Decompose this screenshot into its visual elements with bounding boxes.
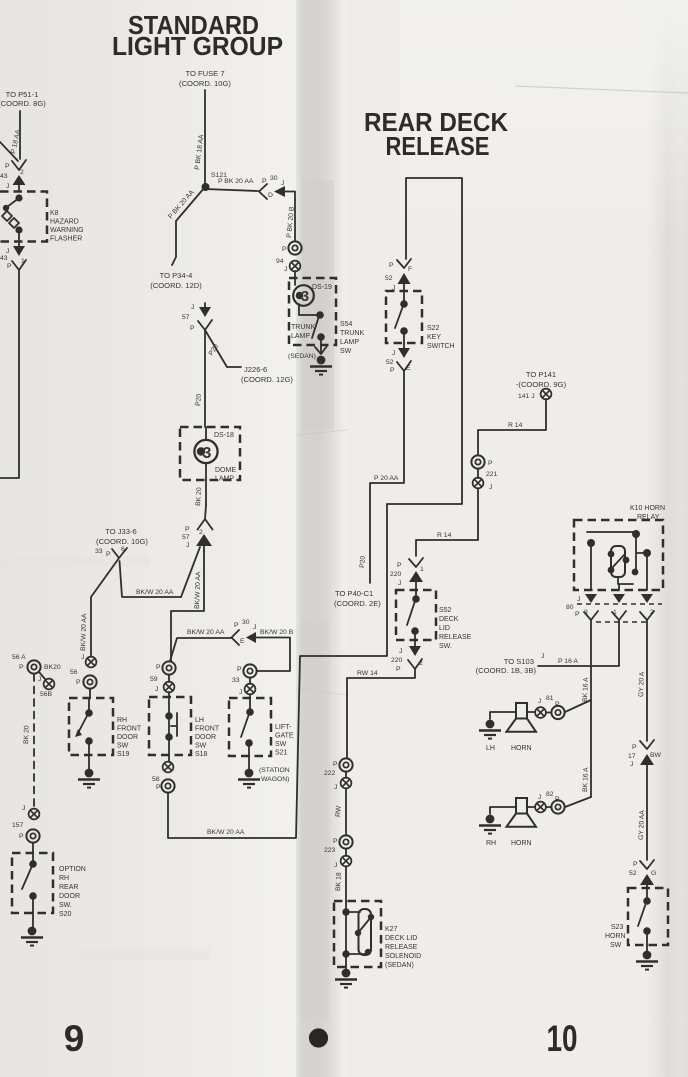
RH horn [490,798,536,827]
wire RW 14 to P222 [347,669,415,758]
label S54 TRUNK LAMP SW [340,321,364,355]
wire pin 3 to horns [590,620,592,797]
svg-text:J: J [186,542,189,549]
svg-text:RELEASE: RELEASE [385,944,418,951]
svg-text:81: 81 [546,695,554,702]
connector P 33 ring [237,664,257,677]
svg-text:P BK 20 AA: P BK 20 AA [218,178,254,185]
svg-text:BK/W 20 AA: BK/W 20 AA [207,829,245,836]
node TO P141 label [516,370,567,400]
svg-text:RW: RW [335,805,343,817]
svg-text:RELEASE: RELEASE [386,131,490,161]
wire pin 2 down [646,620,648,741]
connector 57/2 pair [182,505,213,552]
svg-text:56B: 56B [40,691,53,698]
svg-text:222: 222 [324,770,336,777]
svg-text:WARNING: WARNING [50,227,84,234]
label K10 HORN RELAY [630,505,665,521]
svg-text:LAMP: LAMP [215,476,234,483]
svg-text:OPTION: OPTION [59,866,86,873]
svg-text:TO P51-1: TO P51-1 [6,90,39,99]
label TRUNK LAMP [291,324,315,340]
wire 57/2 down to LH door branch [171,550,204,661]
svg-text:J: J [38,676,41,683]
svg-text:REAR: REAR [59,884,78,891]
svg-text:K10 HORN: K10 HORN [630,505,665,512]
label S52 DECK LID RELEASE SW. [439,607,472,650]
svg-text:P: P [632,744,637,751]
wire key switch to P40-C1 [370,371,404,583]
svg-text:9: 9 [64,1018,85,1059]
switch S18 internals [165,697,177,755]
svg-text:R 14: R 14 [508,422,523,429]
svg-text:J226-6: J226-6 [244,365,267,374]
flasher K8 internals [2,194,23,241]
svg-text:(COORD. 2E): (COORD. 2E) [334,599,381,608]
svg-text:TO FUSE 7: TO FUSE 7 [185,69,224,78]
center binder dot [309,1028,328,1047]
splice 157 J [12,805,39,829]
svg-text:LAMP: LAMP [340,339,359,346]
svg-text:TO J33-6: TO J33-6 [105,527,137,536]
lamp DS-18 bulb [194,427,217,480]
connector P 17 BW J [628,740,662,860]
svg-text:SWITCH: SWITCH [427,343,455,350]
svg-text:LAMP: LAMP [291,333,310,340]
svg-text:HORN: HORN [605,933,626,940]
connector 56 P ring [76,675,97,698]
node TO P51-1 label [0,90,46,108]
wire dashed BK 20 option feed [33,674,35,808]
svg-text:RW 14: RW 14 [357,670,378,677]
svg-text:(COORD. 10G): (COORD. 10G) [179,79,231,88]
svg-text:BK/W 20 AA: BK/W 20 AA [80,613,88,651]
svg-text:D: D [268,192,273,199]
svg-text:P: P [282,246,287,253]
wire branch to LH horn [565,700,591,712]
splice S121 [202,172,228,191]
svg-text:J: J [239,689,242,696]
svg-text:GATE: GATE [275,733,294,740]
svg-text:J: J [155,686,158,693]
svg-text:SW.: SW. [439,643,452,650]
svg-text:J: J [253,624,256,631]
svg-text:BK/W 20 AA: BK/W 20 AA [136,589,174,596]
svg-text:RELEASE: RELEASE [439,634,472,641]
splice 81 J [535,695,554,718]
svg-text:(COORD. 10G): (COORD. 10G) [96,537,148,546]
svg-text:P: P [106,551,111,558]
svg-text:HAZARD: HAZARD [50,219,79,226]
svg-text:2: 2 [199,529,203,536]
label OPTION RH REAR DOOR SW. S20 [59,866,86,918]
wire BK/W 20 AA to connector E [170,638,231,661]
title: STANDARD LIGHT GROUP [112,10,283,61]
svg-text:P: P [633,861,638,868]
svg-text:P: P [185,526,190,533]
switch S52 deck lid release dashed box [396,590,436,640]
svg-text:SW: SW [275,741,287,748]
svg-text:DOME: DOME [215,467,236,474]
svg-text:P: P [397,562,402,569]
solenoid K27 internals [342,901,374,965]
svg-text:S52: S52 [439,607,452,614]
connector 81 P ring [546,701,565,719]
connector D / P 30 J [259,175,295,241]
svg-text:R 14: R 14 [437,532,452,539]
switch S18 LH front door dashed box [149,697,191,755]
splice 141 J [541,389,552,400]
label RH FRONT DOOR SW S19 [117,717,142,758]
svg-text:S23: S23 [611,924,624,931]
svg-text:GY 20 AA: GY 20 AA [638,810,646,840]
svg-text:TO P40-C1: TO P40-C1 [335,589,373,598]
connector F / P 52 J above key switch [385,259,412,292]
svg-text:P: P [390,367,395,374]
wire BK/W 20 AA long feed to right page [168,178,462,838]
svg-text:KEY: KEY [427,334,441,341]
connector 220/1 above S52 [390,558,424,590]
svg-text:J: J [392,350,395,357]
svg-text:(COORD. 1B, 3B): (COORD. 1B, 3B) [476,666,537,675]
lamp DS-19 dashed box [289,278,336,345]
svg-text:LIFT-: LIFT- [275,724,292,731]
svg-text:BK 16 A: BK 16 A [582,677,590,702]
svg-text:P: P [389,262,394,269]
svg-text:J: J [538,698,541,705]
svg-text:P: P [7,263,12,270]
connector 57 upper [182,303,212,332]
svg-text:3: 3 [203,445,212,462]
lamp DS-19 bulb [293,278,317,315]
wire R 14 from P141 [478,399,546,455]
svg-text:P: P [156,784,161,791]
connector J33 pin 6 [95,546,127,558]
svg-text:59: 59 [150,676,158,683]
svg-text:BK 20: BK 20 [23,725,31,744]
svg-text:G: G [651,870,656,877]
svg-text:(SEDAN): (SEDAN) [288,353,316,360]
svg-text:P: P [396,666,401,673]
switch S21 internals [241,698,254,756]
svg-text:K27: K27 [385,926,398,933]
svg-text:82: 82 [546,791,554,798]
svg-text:P: P [333,761,338,768]
svg-text:LID: LID [439,625,450,632]
ground below S21 [238,756,260,788]
svg-text:BK20: BK20 [44,664,61,671]
wire dome lamp down [205,480,207,505]
wire pin 1 to S103 [538,620,619,666]
ground below K27 [335,965,357,988]
svg-text:WAGON): WAGON) [261,776,289,783]
wire diagonal joining connector 43 [0,142,18,161]
splice 223 J [324,847,351,901]
connector 157 P ring [19,829,40,853]
svg-text:RH: RH [486,840,496,847]
svg-text:56: 56 [70,669,78,676]
svg-text:E: E [240,638,245,645]
svg-text:J: J [191,304,194,311]
svg-text:P 16 A: P 16 A [558,658,578,665]
svg-text:(STATION: (STATION [259,767,290,774]
svg-text:94: 94 [276,258,284,265]
LH horn [490,703,536,732]
svg-text:2: 2 [20,169,24,176]
svg-text:52: 52 [385,275,393,282]
switch S52 internals [407,590,420,640]
svg-text:SOLENOID: SOLENOID [385,953,421,960]
svg-text:BK/W 20 AA: BK/W 20 AA [187,629,225,636]
connector 43 pin 1 [0,241,26,270]
connector P 223 ring [333,835,353,848]
svg-text:P: P [190,325,195,332]
connector P 222 ring [333,758,353,771]
svg-text:P20: P20 [359,555,367,568]
switch S21 liftgate dashed box [229,698,271,756]
wire branch to J226-6 [205,330,241,367]
svg-text:220: 220 [390,571,402,578]
splice 59 J [150,675,174,697]
splice 56 J [70,654,96,676]
ground below S19 [78,755,100,788]
svg-text:P: P [333,838,338,845]
switch S54 trunk lamp sw [312,311,325,352]
svg-text:S19: S19 [117,751,130,758]
relay K10 dashed box [574,520,663,590]
svg-text:P: P [156,664,161,671]
label K27 DECK LID RELEASE SOLENOID (SEDAN) [385,926,421,969]
svg-text:LH: LH [195,717,204,724]
svg-text:57: 57 [182,534,190,541]
svg-text:30: 30 [242,619,250,626]
svg-text:(SEDAN): (SEDAN) [385,962,414,969]
svg-text:S20: S20 [59,911,72,918]
svg-text:P 20 AA: P 20 AA [374,475,399,482]
wire 57 to dome lamp [204,330,206,427]
svg-text:SW.: SW. [59,902,72,909]
wire R 14 to S52 [416,540,478,556]
svg-text:52: 52 [386,359,394,366]
node TO P40-C1 label [334,589,381,608]
svg-text:J: J [541,653,544,660]
svg-text:J: J [398,580,401,587]
svg-text:3: 3 [301,289,309,305]
svg-text:(COORD. 8G): (COORD. 8G) [0,99,46,108]
switch S19 internals [75,698,93,755]
splice 94 J [276,258,300,278]
svg-text:52: 52 [629,870,637,877]
svg-text:223: 223 [324,847,336,854]
faint crease top right [515,86,688,93]
splice 221 J [473,469,498,540]
wire P 18 AA from P51-1 [19,111,21,159]
connector P 52 G [629,860,656,888]
svg-text:J: J [399,648,402,655]
svg-text:P20: P20 [195,393,203,406]
svg-text:J: J [489,484,492,491]
connector 43 pin 2 [0,160,26,191]
lamp DS-18 dashed box [180,427,240,480]
svg-text:S22: S22 [427,325,440,332]
connector 58 P ring [156,779,175,792]
node TO J33-6 label [96,527,148,546]
right page edge shadow [648,0,688,1077]
wire branch to RH horn [565,797,591,807]
svg-text:FRONT: FRONT [117,726,142,733]
svg-text:J: J [538,794,541,801]
svg-text:DECK LID: DECK LID [385,935,417,942]
svg-text:J: J [334,784,337,791]
svg-text:J: J [577,596,580,603]
node J226-6 label [241,365,293,384]
svg-text:J: J [284,266,287,273]
svg-text:P: P [19,664,24,671]
svg-text:DOOR: DOOR [195,734,216,741]
svg-text:LIGHT GROUP: LIGHT GROUP [112,31,283,61]
svg-text:J: J [22,805,25,812]
relay K10 pin arrows 3 1 2 [566,594,662,622]
svg-text:-(COORD. 9G): -(COORD. 9G) [516,380,567,389]
svg-text:P: P [575,611,580,618]
svg-text:RH: RH [117,717,127,724]
svg-text:BW: BW [650,752,662,759]
splice 33 J [232,677,255,698]
connector 56A P ring [12,654,61,674]
connector E / P 30 J [232,619,291,671]
svg-text:P: P [237,666,242,673]
faint fold creases [296,430,347,435]
svg-text:SW: SW [117,743,129,750]
svg-text:DECK: DECK [439,616,459,623]
ground RH horn [479,815,501,834]
label DOME LAMP [215,467,236,483]
svg-text:P: P [19,833,24,840]
svg-text:J: J [630,761,633,768]
svg-text:TO P34-4: TO P34-4 [160,271,193,280]
svg-text:10: 10 [547,1018,578,1059]
svg-text:221: 221 [486,471,498,478]
wire from connector 43 to page edge [0,270,19,478]
switch S22 key switch dashed box [386,291,422,343]
svg-text:K8: K8 [50,210,59,217]
svg-text:33: 33 [232,677,240,684]
svg-text:P: P [76,679,81,686]
svg-text:DOOR: DOOR [117,734,138,741]
label LH FRONT DOOR SW S18 [195,717,220,758]
ground below S54 [310,346,332,375]
svg-text:J: J [81,654,84,661]
svg-text:141 J: 141 J [518,393,535,400]
node TO FUSE 7 label [179,69,231,88]
label LH HORN [486,745,532,752]
wire J33 to RH front door [91,558,119,656]
svg-text:P: P [488,460,493,467]
svg-text:BK 20: BK 20 [195,487,203,506]
svg-text:80: 80 [566,604,574,611]
svg-text:J: J [6,183,9,190]
label (STATION WAGON) [259,767,290,783]
ground below S23 [636,945,658,970]
svg-text:BK/W 20 B: BK/W 20 B [260,629,294,636]
relay K10 internals [587,530,651,590]
label S22 KEY SWITCH [427,325,455,350]
svg-text:BK 18: BK 18 [335,872,343,891]
solenoid K27 deck lid release dashed box [334,901,381,967]
svg-text:BK/W 20 AA: BK/W 20 AA [194,571,202,609]
svg-text:58: 58 [152,776,160,783]
switch S23 internals [638,888,651,945]
svg-text:TRUNK: TRUNK [340,330,364,337]
splice 56B J [38,672,54,698]
label LIFT-GATE SW S21 [275,724,294,757]
svg-text:17: 17 [628,753,636,760]
svg-text:43: 43 [0,173,8,180]
right page paper [347,0,688,1077]
title: REAR DECK RELEASE [364,107,508,161]
svg-text:DOOR: DOOR [59,893,80,900]
svg-text:SW: SW [610,942,622,949]
svg-text:LH: LH [486,745,495,752]
svg-text:TO P141: TO P141 [526,370,556,379]
svg-text:S18: S18 [195,751,208,758]
svg-text:30: 30 [270,175,278,182]
svg-text:SW: SW [195,743,207,750]
svg-text:RH: RH [59,875,69,882]
svg-text:BK 16 A: BK 16 A [582,767,590,792]
node TO P34-4 label [150,271,202,290]
flasher K8 dashed box [0,192,47,242]
svg-text:P: P [234,622,239,629]
svg-text:TO S103: TO S103 [504,657,534,666]
svg-text:57: 57 [182,314,190,321]
label S23 HORN SW [605,924,626,949]
svg-text:56 A: 56 A [12,654,26,661]
page fold shading center [296,0,347,1077]
connector 220/2 below S52 [391,640,423,673]
node TO S103 label [476,653,545,675]
splice 222 J [324,770,351,835]
svg-text:DS-19: DS-19 [312,284,332,291]
switch S22 internals [395,291,408,343]
switch S19 RH front door dashed box [69,698,113,755]
svg-text:(COORD. 12G): (COORD. 12G) [241,375,293,384]
wire feed from fuse 7 [204,90,206,187]
svg-text:GY 20 A: GY 20 A [638,671,646,697]
switch S23 horn sw dashed box [628,888,668,945]
wire diagonal to J33 horizontal [181,547,200,597]
connector P 221 ring [471,455,493,468]
splice 82 J [535,791,554,812]
svg-text:HORN: HORN [511,840,532,847]
svg-text:S54: S54 [340,321,353,328]
svg-text:HORN: HORN [511,745,532,752]
svg-text:TRUNK: TRUNK [291,324,315,331]
connector P 59 J ring [156,661,176,674]
svg-text:F: F [408,266,412,273]
svg-text:S21: S21 [275,750,288,757]
wire branch to P34-4 [172,187,205,265]
switch S20 option RH rear door dashed box [12,853,53,913]
splice 58 J [152,755,173,783]
svg-text:33: 33 [95,548,103,555]
connector E / J 52 P below key switch [386,343,411,374]
svg-text:1: 1 [420,566,424,573]
svg-text:43: 43 [0,255,8,262]
connector P 94 J ring [282,241,302,254]
switch S20 internals [22,853,37,913]
ground below S20 [21,913,43,946]
